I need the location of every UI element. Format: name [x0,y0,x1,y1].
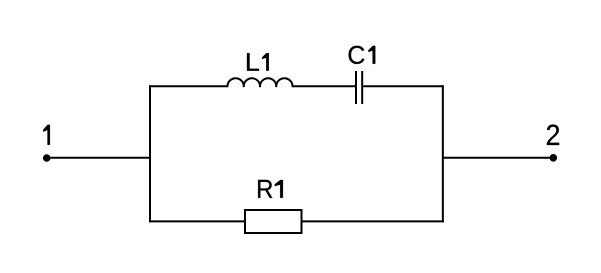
capacitor C1 right plate [361,71,363,104]
label 2 (node 2) [547,125,559,146]
wire right rail to node 2 [443,157,553,159]
label C1 letter C [349,46,365,64]
label 1 (node 1) [43,125,50,145]
wire left vertical rail [149,85,151,222]
wire top-left segment [149,85,228,87]
wire node 1 to left rail [47,157,150,159]
node 1 terminal dot [43,155,50,162]
label L1 letter L [247,53,259,71]
wire R1 to right rail [302,220,444,222]
label L1 digit 1 [262,53,269,71]
inductor L1 [227,78,292,87]
wire C1 to right rail [363,85,443,87]
resistor R1 body [245,210,302,233]
wire bottom-left segment [149,220,245,222]
capacitor C1 left plate [355,71,357,104]
wire between L1 and C1 [292,85,355,87]
label R1 letter R [258,180,272,198]
node 2 terminal dot [550,155,557,162]
wire right vertical rail [442,85,444,222]
label R1 digit 1 [275,180,283,198]
label C1 digit 1 [368,46,375,64]
